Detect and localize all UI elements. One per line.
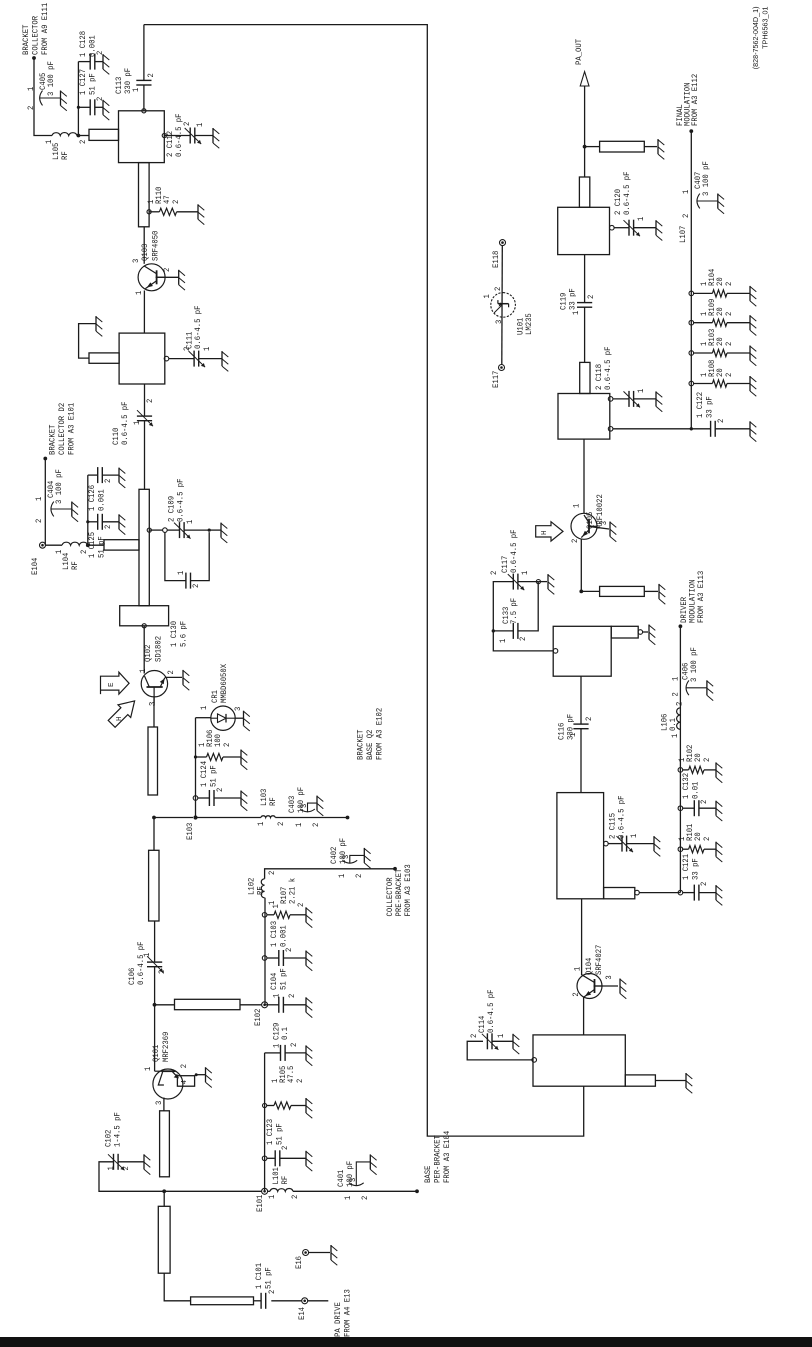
svg-text:PA DRIVE: PA DRIVE (333, 1302, 343, 1337)
svg-text:MRF2369: MRF2369 (161, 1032, 171, 1062)
capacitor C129 (265, 1052, 281, 1054)
svg-text:2: 2 (681, 214, 691, 218)
svg-text:2: 2 (354, 874, 364, 878)
microstrip block B5 lobe (604, 888, 635, 899)
svg-text:3: 3 (154, 1101, 164, 1105)
svg-text:1: 1 (143, 1067, 153, 1071)
svg-text:2: 2 (724, 342, 734, 346)
capacitor C102 (1-4.5 pF trimmer) (113, 1154, 115, 1170)
svg-text:100 pF: 100 pF (345, 1161, 355, 1187)
feedthrough capacitor C402 (342, 860, 357, 863)
svg-text:2: 2 (284, 948, 294, 952)
svg-text:E103: E103 (185, 823, 195, 840)
svg-text:0.6-4.5 pF: 0.6-4.5 pF (509, 530, 519, 574)
node junction L104/branch (86, 543, 90, 547)
svg-text:1: 1 (138, 669, 148, 673)
svg-text:BASE Q2: BASE Q2 (365, 730, 375, 760)
svg-text:1: 1 (256, 822, 266, 826)
svg-text:2: 2 (215, 788, 225, 792)
svg-text:FROM A9 E111: FROM A9 E111 (40, 3, 50, 55)
microstrip strip TL7 (139, 163, 150, 227)
wire B3 strip to C110 (144, 421, 146, 490)
final bias ladder wire (690, 131, 692, 429)
capacitor C123 (262, 1156, 267, 1161)
wire Q103 collector (143, 227, 145, 264)
svg-text:RF: RF (70, 561, 80, 570)
inductor L104 (62, 542, 88, 545)
svg-text:0.6-4.5 pF: 0.6-4.5 pF (603, 347, 613, 391)
svg-text:1: 1 (343, 1196, 353, 1200)
svg-text:2: 2 (179, 1064, 189, 1068)
svg-text:Q101: Q101 (151, 1045, 161, 1062)
microstrip strip TL5 (149, 850, 159, 921)
svg-text:0.6-4.5 pF: 0.6-4.5 pF (174, 114, 184, 158)
svg-text:2: 2 (290, 1195, 300, 1199)
microstrip block B6 step (611, 626, 638, 638)
capacitor C127 (77, 106, 80, 109)
svg-text:3: 3 (299, 804, 309, 808)
svg-text:E101: E101 (255, 1195, 265, 1212)
svg-text:1-4.5 pF: 1-4.5 pF (113, 1112, 123, 1147)
node junction at emitter stub (579, 590, 583, 594)
svg-text:51 pF: 51 pF (88, 73, 98, 95)
resistor R104 (689, 291, 694, 296)
svg-text:1 C130: 1 C130 (169, 621, 179, 647)
svg-text:51 pF: 51 pF (209, 765, 219, 787)
svg-text:2: 2 (724, 282, 734, 286)
microstrip block B8 right stub (579, 177, 589, 207)
svg-text:1: 1 (131, 88, 141, 92)
capacitor C130 loop (165, 532, 186, 580)
svg-text:E118: E118 (491, 251, 501, 268)
ground for B4 lobe (685, 1073, 687, 1088)
capacitor C102 branch wiring (99, 1162, 164, 1192)
capacitor C115 (0.6-4.5 pF) (604, 841, 609, 846)
capacitor C104 (265, 1004, 279, 1006)
svg-text:1: 1 (636, 389, 646, 393)
svg-text:2: 2 (586, 295, 596, 299)
microstrip block B1 top stub (89, 129, 119, 140)
svg-text:2: 2 (311, 823, 321, 827)
svg-text:1 C103: 1 C103 (269, 921, 279, 947)
microstrip stub TL8 (581, 590, 599, 592)
node E103 (193, 815, 197, 819)
svg-text:1: 1 (337, 874, 347, 878)
branch wire E103 to CR1 (195, 718, 197, 818)
wire Q103 base to ground (156, 276, 179, 278)
svg-text:2: 2 (287, 994, 297, 998)
capacitor C132 (678, 806, 683, 811)
wire step to ground (638, 630, 643, 635)
svg-text:2: 2 (157, 970, 167, 974)
svg-text:BRACKET: BRACKET (356, 730, 366, 760)
svg-text:1: 1 (34, 497, 44, 501)
wire B7 to FINAL MOD ladder (608, 427, 613, 432)
svg-text:2: 2 (702, 837, 712, 841)
svg-text:0.01: 0.01 (691, 782, 701, 799)
svg-text:1: 1 (568, 733, 578, 737)
resistor R107 (262, 913, 267, 918)
svg-text:0.1: 0.1 (668, 718, 678, 731)
svg-text:1 C127: 1 C127 (78, 69, 88, 95)
svg-text:100 pF: 100 pF (296, 787, 306, 813)
svg-text:BRACKET: BRACKET (21, 25, 31, 55)
svg-text:0.6-4.5 pF: 0.6-4.5 pF (622, 172, 632, 216)
svg-text:2: 2 (584, 717, 594, 721)
wire C117 loop to ground (538, 581, 547, 583)
svg-text:2: 2 (103, 479, 113, 483)
svg-text:1: 1 (272, 1044, 282, 1048)
wire TL2 to junction (163, 1191, 165, 1206)
svg-text:3 100 pF: 3 100 pF (701, 161, 711, 196)
svg-text:BRACKET: BRACKET (48, 425, 58, 455)
wire junction to E103 (154, 817, 193, 819)
svg-text:RF: RF (60, 151, 70, 160)
svg-text:FROM A3 E103: FROM A3 E103 (403, 864, 413, 916)
capacitor C117/C133 feed (553, 649, 558, 654)
svg-text:1 C124: 1 C124 (199, 761, 209, 787)
wire L101 to C401 (293, 1190, 417, 1192)
svg-text:2: 2 (675, 702, 685, 706)
branch wire to C127/C128 (77, 62, 79, 136)
svg-text:RF: RF (268, 797, 278, 806)
svg-text:1: 1 (498, 639, 508, 643)
svg-text:1 C128: 1 C128 (78, 31, 88, 57)
capacitor C126 (88, 474, 98, 476)
svg-text:2: 2 (276, 822, 286, 826)
svg-text:1: 1 (106, 1166, 116, 1170)
microstrip block B7 (Q105 collector) (558, 394, 610, 440)
wire block B1 to C113 (142, 109, 146, 113)
capacitor C128 (78, 61, 90, 63)
resistor R101 (678, 847, 683, 852)
wire Q105 collector (583, 439, 585, 513)
svg-text:H: H (116, 716, 124, 721)
svg-text:0.6-4.5 pF: 0.6-4.5 pF (193, 306, 203, 350)
svg-text:(828-7562-004D_1): (828-7562-004D_1) (751, 7, 760, 70)
inductor L102 (261, 879, 264, 898)
svg-text:1: 1 (202, 347, 212, 351)
svg-text:2: 2 (34, 519, 44, 523)
svg-text:100 pF: 100 pF (338, 838, 348, 864)
svg-text:SRF4050: SRF4050 (151, 231, 161, 261)
svg-text:0.6-4.5 pF: 0.6-4.5 pF (176, 479, 186, 523)
svg-text:2: 2 (145, 399, 155, 403)
svg-text:2: 2 (146, 73, 156, 77)
svg-text:0.001: 0.001 (97, 489, 107, 511)
svg-text:FROM A3 E104: FROM A3 E104 (442, 1131, 452, 1183)
svg-text:1: 1 (54, 550, 64, 554)
feedthrough capacitor C404 (51, 502, 54, 517)
microstrip strip TL2 (158, 1206, 170, 1273)
svg-text:2.21 k: 2.21 k (288, 878, 298, 904)
svg-text:1: 1 (267, 1195, 277, 1199)
svg-text:2: 2 (296, 903, 306, 907)
svg-text:2: 2 (95, 51, 105, 55)
ground for CR1 (243, 711, 245, 726)
wire C113 to loop corner (143, 25, 145, 81)
wire Q105 base to ground (588, 526, 609, 529)
svg-text:3: 3 (604, 975, 614, 979)
resistor R109 (689, 320, 694, 325)
wire Q101 base (154, 1047, 156, 1072)
wire C110 to block B2 (144, 384, 146, 416)
transistor Q105 MRF10022 (571, 513, 597, 539)
wire C106 to TL5 (154, 921, 156, 962)
arrow callout H near Q105 (536, 522, 563, 541)
svg-text:0.6-4.5 pF: 0.6-4.5 pF (136, 942, 146, 986)
svg-text:3: 3 (494, 320, 504, 324)
wire B4 to Q104 (583, 997, 585, 1035)
svg-text:1: 1 (142, 953, 152, 957)
microstrip strip TL3 (160, 1111, 170, 1177)
terminal FINAL MODULATION (689, 129, 693, 133)
svg-text:1: 1 (681, 190, 691, 194)
svg-text:1 C125: 1 C125 (87, 532, 97, 558)
wire strip to corner (164, 1273, 190, 1301)
terminal E16 (303, 1250, 309, 1256)
svg-text:FROM A3 E113: FROM A3 E113 (696, 571, 706, 623)
microstrip block B6 (Q105 emitter) (553, 626, 611, 676)
capacitor C119 33 pF (584, 307, 586, 362)
microstrip block B5 (Q104 collector) (557, 793, 604, 899)
wire Q101 emitter to ground (196, 1074, 205, 1076)
ground for Q101 emitter (205, 1067, 207, 1082)
ladder wire E101 to C129 corner (264, 1053, 266, 1191)
svg-text:2: 2 (724, 312, 734, 316)
svg-text:33 pF: 33 pF (705, 396, 715, 418)
capacitor C114 branch wiring (532, 1058, 537, 1063)
svg-text:BASE: BASE (423, 1166, 433, 1183)
svg-text:0.6-4.5 pF: 0.6-4.5 pF (486, 990, 496, 1034)
capacitor C109 (0.6-4.5 pF) (147, 528, 151, 532)
svg-text:1: 1 (199, 706, 209, 710)
svg-text:3 100 pF: 3 100 pF (689, 647, 699, 682)
wire B5 to C116 (580, 729, 582, 793)
wire BRACKET COLLECTOR D2 (44, 459, 46, 546)
svg-text:0.6-4.5 pF: 0.6-4.5 pF (617, 796, 627, 840)
svg-text:E: E (108, 682, 116, 687)
PA_OUT arrow (580, 72, 589, 86)
terminal E101 (262, 1188, 268, 1194)
svg-text:1: 1 (134, 291, 144, 295)
wire Q104 collector (581, 899, 583, 975)
terminal BRACKET BASE Q2 (346, 816, 350, 820)
wire TL3 to Q101 collector (163, 1098, 165, 1111)
svg-text:2: 2 (469, 1034, 479, 1038)
svg-text:2: 2 (518, 637, 528, 641)
svg-text:4: 4 (181, 1080, 189, 1084)
svg-text:RF: RF (280, 1176, 290, 1185)
svg-text:LM235: LM235 (524, 313, 534, 335)
feedthrough capacitor C406 (686, 680, 689, 695)
svg-text:E14: E14 (297, 1307, 307, 1320)
svg-text:E117: E117 (491, 371, 501, 388)
ground for C102 (143, 1154, 145, 1169)
svg-text:COLLECTOR: COLLECTOR (31, 16, 41, 55)
svg-text:FROM A4 E13: FROM A4 E13 (343, 1289, 353, 1337)
svg-text:E16: E16 (294, 1256, 304, 1269)
svg-text:1: 1 (26, 87, 36, 91)
svg-text:1: 1 (176, 571, 186, 575)
capacitor C111 (0.6-4.5 pF) (164, 356, 169, 361)
transistor Q103 SRF4050 (138, 264, 165, 291)
microstrip stub TL9 (585, 146, 600, 148)
resistor R108 (689, 381, 694, 386)
svg-text:E104: E104 (30, 558, 40, 575)
svg-text:2: 2 (162, 268, 172, 272)
svg-text:2: 2 (699, 800, 709, 804)
svg-text:Q104: Q104 (584, 958, 594, 975)
resistor R106 (194, 755, 197, 758)
svg-text:2: 2 (295, 1079, 305, 1083)
feedthrough capacitor C407 (697, 194, 700, 209)
svg-text:RF: RF (256, 886, 266, 895)
svg-text:51 pF: 51 pF (279, 968, 289, 990)
feedthrough capacitor C405 (40, 91, 43, 106)
svg-text:2: 2 (103, 525, 113, 529)
svg-text:FROM A3 E112: FROM A3 E112 (690, 74, 700, 126)
svg-text:SRF4027: SRF4027 (594, 945, 604, 975)
node junction at C102 branch (162, 1189, 166, 1193)
capacitor C133 loop left (493, 630, 513, 632)
svg-text:MMBD6050X: MMBD6050X (219, 664, 229, 703)
wire E16 to ground (309, 1252, 330, 1254)
terminal E14 / PA DRIVE (302, 1298, 308, 1304)
svg-text:C104: C104 (269, 973, 279, 990)
microstrip strip TL4 (to E102) (155, 1004, 175, 1006)
inductor L106 (677, 708, 681, 730)
svg-text:1: 1 (267, 901, 277, 905)
svg-text:PER-BRACKET: PER-BRACKET (433, 1135, 443, 1183)
wire to PA_OUT arrow (584, 86, 586, 147)
svg-text:COLLECTOR D2: COLLECTOR D2 (57, 403, 67, 455)
svg-text:1: 1 (294, 823, 304, 827)
wire L103 to BRACKET BASE terminal (275, 817, 347, 819)
ground for B2 stub (95, 316, 97, 331)
svg-text:2: 2 (702, 758, 712, 762)
svg-text:3: 3 (233, 707, 243, 711)
wire TL5 to E103 junction (153, 818, 155, 851)
svg-text:51 pF: 51 pF (275, 1123, 285, 1145)
svg-text:3 100 pF: 3 100 pF (54, 469, 64, 504)
microstrip block B8 (output) (558, 207, 610, 254)
wire stub to PA_OUT junction (584, 147, 586, 177)
footer scan bar (0, 1337, 812, 1347)
wire corner to COLLECTOR PRE-BRACKET (265, 869, 395, 879)
svg-text:2: 2 (489, 571, 499, 575)
terminal E104 (46, 544, 63, 546)
resistor R102 (678, 768, 683, 773)
capacitor C112 (0.6-4.5 pF) (162, 133, 166, 137)
svg-text:3: 3 (348, 1178, 358, 1182)
wire lobe to ladder (635, 890, 640, 895)
microstrip block B7 right stub (580, 362, 590, 393)
svg-text:2: 2 (26, 106, 36, 110)
svg-text:1: 1 (571, 311, 581, 315)
svg-text:2: 2 (78, 140, 88, 144)
inductor L101 (268, 1190, 270, 1192)
wire Q104 base to ground (594, 985, 619, 987)
svg-text:L107: L107 (678, 226, 688, 243)
svg-text:2: 2 (121, 1166, 131, 1170)
svg-text:FROM A3 E102: FROM A3 E102 (375, 708, 385, 760)
terminal BASE PER-BRACKET (415, 1189, 419, 1193)
microstrip block B4 lobe (625, 1075, 655, 1086)
wire E103 down to L103 (196, 817, 261, 819)
wire Q105 emitter (580, 539, 582, 591)
arrow callout E (101, 672, 130, 694)
svg-text:1: 1 (670, 734, 680, 738)
capacitor C116 330 pF (573, 728, 588, 730)
svg-text:2: 2 (222, 743, 232, 747)
svg-text:2: 2 (671, 692, 681, 696)
feedthrough capacitor C401 (349, 1183, 364, 1186)
svg-text:2: 2 (191, 584, 201, 588)
svg-text:2: 2 (570, 539, 580, 543)
svg-text:51 pF: 51 pF (97, 536, 107, 558)
svg-text:Q103: Q103 (140, 244, 150, 261)
node junction PA_OUT (583, 145, 587, 149)
svg-text:2: 2 (699, 882, 709, 886)
wire TL8 to ground (644, 590, 658, 592)
svg-text:3 100 pF: 3 100 pF (46, 61, 56, 96)
ladder wire E102 to L102 corner (264, 898, 266, 1006)
microstrip block B3 strip (139, 489, 149, 605)
diode CR1 MMBD6050X (196, 717, 212, 719)
microstrip strip TL1 (191, 1297, 254, 1305)
svg-text:1: 1 (185, 520, 195, 524)
svg-text:33 pF: 33 pF (568, 288, 578, 310)
terminal COLLECTOR PRE-BRACKET (393, 867, 397, 871)
svg-text:2: 2 (493, 287, 503, 291)
svg-text:2: 2 (571, 992, 581, 996)
driver bias ladder wire (679, 626, 681, 892)
svg-text:1: 1 (195, 123, 205, 127)
svg-text:1 C126: 1 C126 (87, 485, 97, 511)
inductor L103 (261, 816, 275, 818)
ground for E16 (330, 1245, 332, 1260)
wire C116 to Q105 block (580, 676, 582, 724)
svg-text:1 C101: 1 C101 (254, 1263, 264, 1289)
svg-text:2: 2 (289, 1043, 299, 1047)
svg-text:51 pF: 51 pF (264, 1267, 274, 1289)
svg-text:2: 2 (724, 373, 734, 377)
svg-text:SD1802: SD1802 (154, 636, 164, 662)
node junction L105 branch (77, 134, 81, 138)
transistor Q101 MRF2369 (153, 1069, 183, 1099)
capacitor C106 (0.6-4.5 pF) (147, 966, 162, 968)
svg-text:1 C132: 1 C132 (681, 773, 691, 799)
microstrip block B2 top stub (89, 353, 119, 363)
capacitor C114 (0.6-4.5 pF) (486, 1033, 488, 1049)
svg-text:0.1: 0.1 (280, 1027, 290, 1040)
svg-text:1: 1 (132, 421, 142, 425)
svg-text:2: 2 (716, 419, 726, 423)
svg-text:3: 3 (148, 702, 158, 706)
wire Q102 emitter to ground (165, 676, 182, 678)
svg-text:5.6 pF: 5.6 pF (179, 621, 189, 647)
svg-text:E102: E102 (253, 1009, 263, 1026)
capacitor C113 330 pF (136, 84, 151, 86)
microstrip block B4 (Q104 emitter) (533, 1035, 625, 1086)
svg-text:1: 1 (520, 571, 530, 575)
svg-text:MRF10022: MRF10022 (595, 494, 605, 529)
transistor Q102 SD1802 (141, 671, 167, 697)
branch wire to C125/C126 (87, 475, 89, 545)
svg-text:1: 1 (629, 834, 639, 838)
svg-text:2: 2 (182, 122, 192, 126)
